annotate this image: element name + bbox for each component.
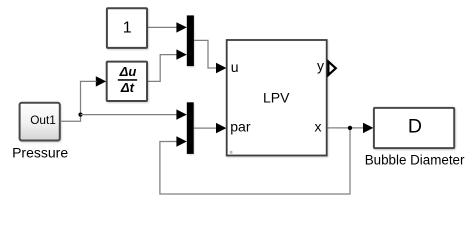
feedback wire from x junction down, left and up to Mux2 input 2 [160,128,350,194]
outport block Out1 [20,103,60,141]
svg-text:Pressure: Pressure [12,144,68,160]
wire from Constant 1 to Mux1 input 1 [148,26,177,28]
mux Mux1 [187,15,194,66]
svg-text:Δt: Δt [120,80,135,95]
svg-text:Bubble Diameter: Bubble Diameter [365,152,465,167]
junction dot on Pressure wire [78,113,82,117]
svg-text:D: D [408,115,422,137]
label Pressure [12,144,68,160]
wire from Mux1 output to LPV u input [194,40,217,68]
svg-text:y: y [317,58,324,74]
gain block D [374,108,454,148]
wire from Du/Dt output to Mux1 input 2 [148,55,177,82]
constant block 1 [107,8,147,48]
svg-text:1: 1 [123,20,132,37]
svg-text:Out1: Out1 [30,113,56,127]
label Bubble Diameter [365,152,465,167]
derivative block Du/Dt [107,62,147,101]
arrowhead into Mux1 input 2 [176,49,186,59]
arrowhead into LPV par port [216,123,226,133]
wire from LPV x output to D block [328,127,364,129]
junction dot on x wire [348,126,352,130]
wire from Mux2 output to LPV par input [194,127,217,129]
arrowhead into LPV u port [216,63,226,73]
subsystem block LPV [227,40,327,156]
svg-text:par: par [230,118,251,134]
arrowhead into D block [363,123,373,133]
arrowhead into Mux1 input 1 [176,22,186,32]
svg-text:u: u [231,59,239,75]
wire from Out1 to junction and up to Du/Dt input [60,81,96,121]
arrowhead into Du/Dt input [96,76,106,86]
arrowhead into Mux2 input 2 [176,136,186,146]
svg-text:LPV: LPV [263,89,290,105]
svg-text:x: x [315,118,322,134]
arrowhead into Mux2 input 1 [176,109,186,119]
svg-text:Δu: Δu [119,64,137,79]
wire from junction to Mux2 input 1 [81,114,177,116]
mux Mux2 [187,102,194,154]
unconnected output chevron at LPV y port [328,62,335,75]
